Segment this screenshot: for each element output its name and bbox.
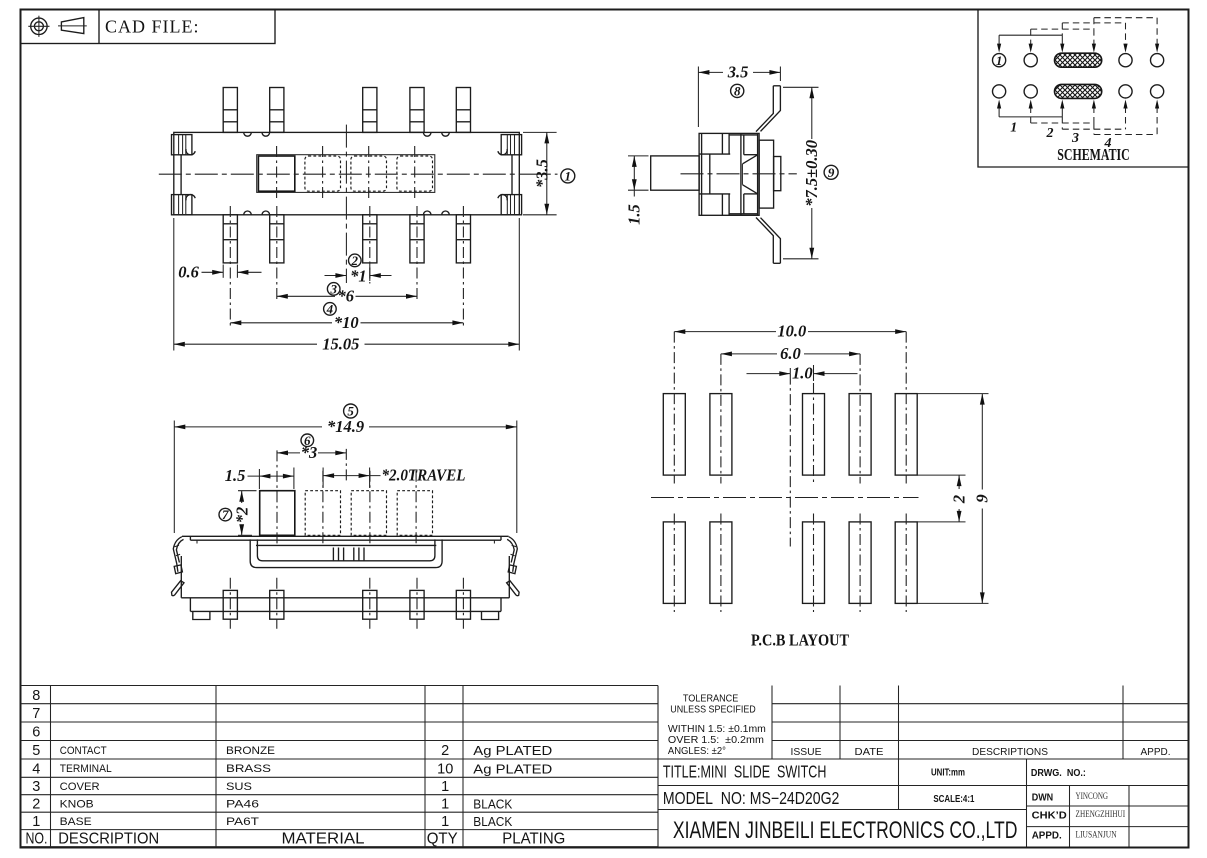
svg-text:8: 8 — [32, 688, 40, 704]
registration target symbol — [28, 16, 49, 37]
svg-text:MODEL NO: MS−24D20G2: MODEL NO: MS−24D20G2 — [663, 788, 840, 808]
svg-text:PA6T: PA6T — [226, 816, 259, 828]
svg-text:SCALE:4:1: SCALE:4:1 — [933, 794, 974, 805]
svg-text:OVER 1.5: ±0.2mm: OVER 1.5: ±0.2mm — [668, 735, 764, 746]
svg-text:6.0: 6.0 — [780, 344, 801, 363]
svg-text:*7.5±0.30: *7.5±0.30 — [802, 140, 821, 207]
svg-text:BLACK: BLACK — [473, 815, 513, 829]
svg-text:7: 7 — [222, 507, 229, 522]
svg-text:CAD FILE:: CAD FILE: — [105, 16, 200, 36]
svg-text:UNLESS SPECIFIED: UNLESS SPECIFIED — [670, 705, 756, 716]
svg-text:NO.: NO. — [26, 831, 48, 848]
front view right bent corner — [507, 537, 520, 596]
title block grid — [658, 686, 1189, 847]
svg-text:*3.5: *3.5 — [533, 159, 552, 188]
svg-text:1: 1 — [441, 797, 449, 813]
schematic wiper top — [1055, 53, 1102, 67]
svg-text:DRWG. NO.:: DRWG. NO.: — [1031, 768, 1086, 779]
svg-text:Ag PLATED: Ag PLATED — [473, 744, 552, 758]
schematic top arrows — [998, 35, 1000, 45]
top view left mounting clips — [172, 135, 192, 155]
dimension 1.0 pcb — [747, 373, 791, 375]
dimension *3.5 with callout 1 — [523, 131, 557, 133]
dimension 2 pcb — [917, 474, 965, 476]
schematic bottom arrows — [998, 107, 1000, 117]
svg-text:XIAMEN JINBEILI ELECTRONICS CO: XIAMEN JINBEILI ELECTRONICS CO.,LTD — [673, 817, 1018, 844]
front view base layer — [189, 598, 191, 612]
svg-text:DWN: DWN — [1032, 792, 1054, 804]
svg-text:YINCONG: YINCONG — [1076, 792, 1109, 802]
pcb pads top row — [663, 394, 685, 476]
svg-text:KNOB: KNOB — [60, 798, 94, 810]
svg-text:CHK’D: CHK’D — [1032, 810, 1067, 822]
schematic wiper bottom — [1055, 84, 1102, 98]
front view cover latch marks — [332, 548, 334, 561]
svg-text:TERMINAL: TERMINAL — [60, 763, 112, 775]
svg-text:DESCRIPTION: DESCRIPTION — [58, 831, 159, 848]
pcb pad centerlines — [673, 332, 675, 484]
svg-text:SUS: SUS — [226, 781, 252, 793]
svg-text:3: 3 — [32, 779, 40, 795]
svg-text:1: 1 — [996, 53, 1003, 68]
front view left bent corner — [173, 537, 183, 572]
dimension 10.0 pcb — [674, 331, 776, 333]
svg-text:BRONZE: BRONZE — [226, 745, 275, 757]
dimension 0.6 — [222, 265, 224, 278]
svg-text:TOLERANCE: TOLERANCE — [683, 693, 739, 704]
svg-text:*1: *1 — [350, 267, 367, 286]
svg-text:4: 4 — [32, 761, 40, 777]
svg-text:1: 1 — [32, 814, 40, 830]
svg-text:*2: *2 — [232, 507, 251, 524]
front view base feet — [193, 611, 210, 619]
dimension 1.5 side view — [628, 155, 649, 157]
schematic box — [978, 10, 1189, 168]
dimension *6 with callout 3 — [277, 295, 335, 297]
front view body centerline — [345, 449, 347, 482]
svg-text:1: 1 — [565, 169, 572, 184]
slider window — [257, 155, 435, 193]
front view knob — [260, 491, 295, 536]
svg-text:PA46: PA46 — [226, 798, 259, 810]
schematic contacts top row — [993, 54, 1006, 67]
dimension 9 pcb — [917, 393, 988, 395]
svg-text:3: 3 — [1071, 131, 1079, 146]
front view right clip — [508, 565, 516, 574]
schematic top position links — [999, 34, 1062, 36]
svg-text:1.5: 1.5 — [225, 466, 246, 485]
svg-text:DATE: DATE — [855, 746, 884, 758]
top view horizontal centerline — [159, 173, 558, 175]
front view body sides — [180, 556, 182, 598]
pcb vertical centerline — [789, 374, 791, 547]
svg-text:P.C.B LAYOUT: P.C.B LAYOUT — [751, 631, 849, 650]
svg-text:BLACK: BLACK — [473, 798, 513, 812]
svg-text:15.05: 15.05 — [322, 334, 359, 353]
svg-text:ISSUE: ISSUE — [791, 746, 822, 758]
front view left clip — [174, 565, 182, 574]
svg-text:5: 5 — [32, 743, 40, 759]
dimension 1.5 front view — [258, 469, 260, 489]
front view cover tray — [250, 539, 442, 567]
dimension *10 with callout 4 — [230, 322, 332, 324]
svg-text:ZHENGZHIHUI: ZHENGZHIHUI — [1076, 810, 1126, 820]
svg-text:0.6: 0.6 — [178, 262, 199, 281]
dimension *7.5±0.30 with callout 9 — [783, 86, 819, 88]
svg-text:2: 2 — [441, 743, 449, 759]
svg-text:2: 2 — [949, 495, 968, 504]
svg-text:MATERIAL: MATERIAL — [282, 831, 365, 848]
parts list table — [21, 686, 659, 847]
svg-text:ANGLES: ±2°: ANGLES: ±2° — [668, 746, 726, 757]
svg-text:10: 10 — [437, 761, 453, 777]
svg-text:2: 2 — [1046, 126, 1054, 141]
svg-text:SCHEMATIC: SCHEMATIC — [1057, 145, 1130, 164]
top view shell side edges — [180, 155, 182, 195]
svg-text:WITHIN 1.5: ±0.1mm: WITHIN 1.5: ±0.1mm — [668, 724, 766, 735]
front view left leg — [172, 581, 185, 596]
dimension 6.0 pcb — [721, 353, 777, 355]
svg-text:3: 3 — [329, 282, 337, 297]
front view position centerlines — [276, 450, 278, 546]
svg-text:1.5: 1.5 — [625, 204, 644, 225]
side view cover spring wedges — [743, 155, 758, 164]
side view centerline — [681, 173, 797, 175]
svg-text:2: 2 — [351, 253, 359, 268]
schematic bottom position links — [999, 116, 1062, 118]
front view terminals — [223, 590, 237, 619]
svg-text:COVER: COVER — [60, 781, 100, 793]
svg-text:9: 9 — [828, 165, 835, 180]
parts list numbers — [32, 688, 552, 830]
svg-text:6: 6 — [304, 433, 311, 448]
CAD FILE title box — [21, 10, 276, 44]
side view terminal blocks — [759, 140, 774, 208]
svg-text:*14.9: *14.9 — [327, 417, 364, 436]
top view right mounting clips — [501, 135, 521, 155]
dimension *14.9 with callout 5 — [173, 421, 175, 534]
top view vertical centerline — [345, 125, 347, 283]
side view body — [699, 133, 759, 215]
svg-text:1.0: 1.0 — [792, 364, 813, 383]
svg-text:*10: *10 — [334, 313, 359, 332]
side view cover plate — [729, 134, 758, 136]
front view body bottom — [181, 597, 509, 599]
svg-text:Ag PLATED: Ag PLATED — [473, 762, 552, 776]
svg-text:4: 4 — [326, 302, 334, 317]
svg-text:3.5: 3.5 — [727, 63, 749, 82]
side view lower SMD tab — [761, 218, 781, 264]
svg-text:1: 1 — [441, 779, 449, 795]
side view upper SMD tab — [761, 86, 781, 132]
dimension *2.0 TRAVEL — [322, 468, 324, 488]
front view right leg — [507, 581, 520, 596]
svg-text:PLATING: PLATING — [502, 831, 565, 848]
svg-text:7: 7 — [32, 706, 40, 722]
svg-text:2: 2 — [32, 797, 40, 813]
svg-text:5: 5 — [347, 404, 354, 419]
top view body outline — [174, 132, 520, 214]
pcb horizontal centerline — [651, 497, 919, 499]
front view phantom knobs — [305, 491, 340, 536]
svg-text:QTY: QTY — [427, 831, 458, 848]
svg-text:9: 9 — [973, 494, 992, 502]
front view cover second line — [190, 539, 501, 541]
top view upper terminals — [223, 88, 237, 133]
dimension 3.5 with callout 8 — [697, 67, 699, 128]
knob phantom positions — [305, 156, 341, 191]
dimension *2 with callout 7 — [238, 490, 257, 492]
svg-text:TITLE:MINI SLIDE SWITCH: TITLE:MINI SLIDE SWITCH — [663, 762, 827, 782]
pcb pads bottom row — [663, 522, 685, 604]
dimension *3 with callout 6 — [277, 452, 300, 454]
svg-text:8: 8 — [734, 84, 741, 99]
svg-text:1: 1 — [1010, 121, 1017, 136]
svg-text:10.0: 10.0 — [777, 322, 806, 341]
position centerlines — [276, 146, 278, 201]
svg-text:DESCRIPTIONS: DESCRIPTIONS — [972, 746, 1048, 758]
svg-text:APPD.: APPD. — [1141, 746, 1171, 758]
top view lower terminals — [223, 215, 237, 263]
dimension *1 with callout 2 — [369, 264, 371, 281]
svg-text:6: 6 — [32, 725, 40, 741]
svg-text:*2.0TRAVEL: *2.0TRAVEL — [382, 466, 466, 485]
side view knob — [651, 156, 699, 190]
front view top cover line — [182, 535, 509, 537]
projection cone symbol — [61, 18, 83, 34]
dimension 15.05 — [173, 218, 175, 351]
svg-text:1: 1 — [441, 814, 449, 830]
svg-text:UNIT:mm: UNIT:mm — [931, 768, 965, 779]
svg-text:BRASS: BRASS — [226, 763, 271, 775]
svg-text:APPD.: APPD. — [1032, 830, 1062, 842]
top view edge detents — [244, 132, 252, 136]
svg-text:BASE: BASE — [60, 816, 92, 828]
schematic contacts bottom row — [993, 85, 1006, 98]
knob actual position — [258, 156, 294, 191]
svg-text:CONTACT: CONTACT — [60, 745, 107, 757]
svg-text:LIUSANJUN: LIUSANJUN — [1076, 830, 1117, 840]
